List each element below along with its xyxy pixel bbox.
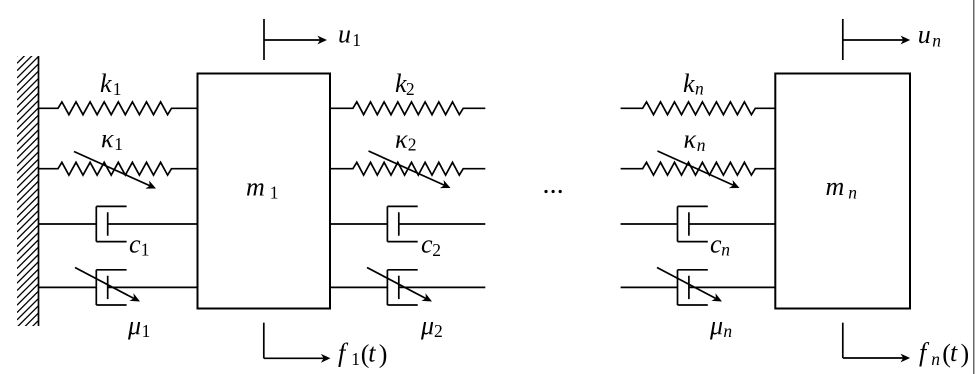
label kappa2 [395,125,416,155]
wall (fixed support, hatched) [17,35,39,342]
arrow through kappan [658,151,740,188]
svg-text:): ) [379,340,388,369]
label kappan [684,125,706,155]
displacement marker un [843,19,910,60]
svg-text:μ: μ [127,311,141,340]
arrow through kappa2 [369,151,451,188]
spring k2 [330,102,485,115]
label c1 [129,230,150,260]
svg-text:t: t [368,339,376,368]
label cn [710,230,730,260]
label un [918,20,941,50]
label m1 [246,173,278,203]
svg-text:n: n [695,79,704,99]
svg-text:n: n [723,321,732,341]
svg-text:2: 2 [432,240,441,260]
svg-text:1: 1 [113,79,122,99]
nonlinear spring kappan [621,162,776,175]
svg-text:2: 2 [408,135,417,155]
spring kn [621,102,776,115]
svg-text:n: n [697,135,706,155]
force arrow fn(t) [843,323,910,363]
label mu2 [420,311,443,341]
label u1 [338,20,361,50]
svg-text:1: 1 [142,321,151,341]
svg-text:n: n [721,239,730,259]
svg-text:1: 1 [351,349,360,369]
svg-text:n: n [931,349,940,369]
svg-text:k: k [683,69,695,98]
nonlinear spring kappa2 [330,162,485,175]
svg-text:k: k [100,69,112,98]
svg-text:c: c [710,230,722,259]
svg-text:): ) [961,339,970,368]
wall face line [38,56,40,326]
force arrow f1(t) [264,323,331,363]
svg-text:m: m [826,172,845,201]
nonlinear damper mu2 [330,270,485,305]
label kn [683,69,704,99]
label fn(t) [919,338,969,369]
label mun [709,311,732,341]
svg-text:c: c [129,230,141,259]
nonlinear damper mu1 [39,270,198,305]
svg-text:μ: μ [420,311,434,340]
svg-text:2: 2 [406,79,415,99]
svg-text:1: 1 [141,240,150,260]
nonlinear damper mun [621,270,776,305]
svg-text:n: n [848,182,857,202]
label f1(t) [338,339,387,369]
label k1 [100,69,122,99]
mass m1 [198,74,331,309]
svg-text:c: c [421,230,433,259]
label mu1 [127,311,150,341]
arrow through kappa1 [74,152,156,189]
arrow through mu1 [75,268,140,302]
mass mn [775,74,910,309]
svg-text:κ: κ [395,125,408,154]
displacement marker u1 [264,19,327,60]
damper c2 [330,206,485,241]
svg-text:m: m [246,173,265,202]
ellipsis (chain continues) [544,190,561,193]
nonlinear spring kappa1 [39,162,198,175]
svg-text:1: 1 [270,183,279,203]
label c2 [421,230,441,260]
arrow through mun [657,268,722,302]
svg-text:u: u [918,20,931,49]
svg-text:1: 1 [352,30,361,50]
svg-text:1: 1 [114,134,123,154]
svg-text:t: t [950,338,958,367]
svg-text:2: 2 [434,321,443,341]
svg-text:κ: κ [684,125,697,154]
svg-text:κ: κ [101,124,114,153]
svg-text:n: n [932,30,941,50]
damper cn [621,206,776,241]
label mn [826,172,858,202]
svg-text:u: u [338,20,351,49]
svg-text:μ: μ [709,311,723,340]
damper c1 [39,206,198,241]
label kappa1 [101,124,123,154]
spring k1 [39,102,198,115]
label k2 [395,69,415,99]
arrow through mu2 [367,268,432,302]
